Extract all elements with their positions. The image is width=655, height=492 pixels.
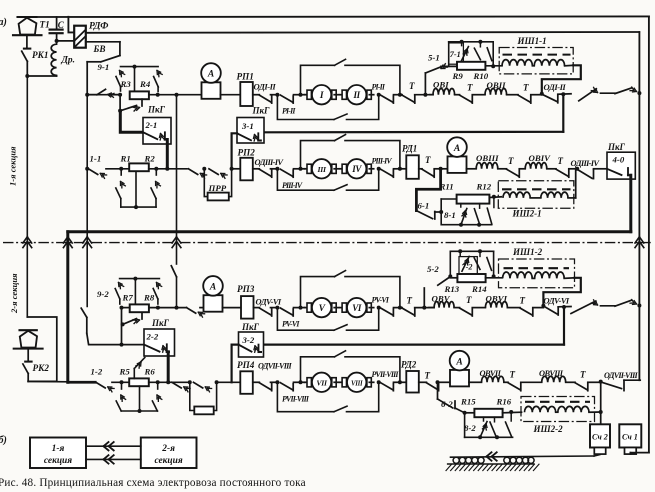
wire top bus to RDF [68,17,74,33]
switch T after OVII [518,95,531,103]
svg-text:R11: R11 [439,182,454,192]
switch ODVII-VIII [259,383,271,391]
node return drop row3 [558,305,571,309]
blade 8-2 c [506,412,512,437]
node R5 left [120,380,124,384]
svg-text:Сч 1: Сч 1 [622,433,638,442]
blade 7-2 c [487,258,492,271]
resistor R13 R14 [457,274,485,282]
switch PRR mid [209,169,227,179]
svg-text:РДФ: РДФ [89,21,108,32]
label OVIII [476,153,499,163]
label OVII [487,80,507,90]
node BV-main1 [85,93,89,97]
svg-text:ОВVІ: ОВVІ [486,294,508,304]
switch T after OVVI [520,308,533,316]
line to OD node row1 [531,94,542,96]
switch 1-2 [96,382,114,392]
label ODV-VI [256,297,282,307]
line2 to R1 [106,168,129,170]
svg-text:2-2: 2-2 [146,332,159,342]
svg-text:Т: Т [580,370,586,380]
node 2-2 wire [120,343,124,347]
lower bypass blade y307.6 [334,325,347,331]
R1R2 joiner [121,172,156,210]
label R10 [473,71,489,81]
label PkG 4-0 [607,142,626,152]
svg-text:РП2: РП2 [238,148,256,158]
switch ODIII-IV right [577,169,607,179]
svg-text:8-1: 8-1 [444,210,456,220]
label T3 row3 [520,296,526,306]
label 2-2 [146,332,159,342]
bold wire to 2-1 [120,111,143,132]
ISh2-1 return [575,169,577,198]
R1R2 hanging left [116,169,126,207]
svg-text:R1: R1 [120,154,131,164]
svg-text:R9: R9 [452,71,464,81]
label RP3 [237,284,255,294]
svg-text:ОДІІІ-ІV: ОДІІІ-ІV [571,158,601,168]
relay RP2 [240,158,253,181]
svg-text:1-2: 1-2 [91,367,103,377]
node tap1 top r3 [458,249,462,255]
top roof bus [18,15,649,18]
node tap2 top [478,40,482,47]
lower bypass left leg y168.8 [277,169,334,190]
svg-text:R12: R12 [476,182,492,192]
bold drop 4-0 [629,175,632,232]
label T rd1 [425,155,431,165]
return wire row3 down [563,307,565,345]
node upper bypass end y307.6 [394,306,402,310]
svg-text:Т: Т [520,296,526,306]
label section1 [8,146,18,186]
blade 7-1 a [461,47,468,62]
switch 5-2 [424,277,450,288]
node 6-2 start [436,380,451,384]
label RP2 [238,148,256,158]
label C [58,20,65,30]
label 4-0 [612,155,625,165]
switch bank1 row3 [571,300,615,314]
label T1 [40,20,50,30]
label T rd2 [425,371,431,381]
label RD2 [401,360,417,370]
switch bank2 row1 [615,87,637,94]
motor ІІІ [305,159,339,178]
svg-text:ОДV-VІ: ОДV-VІ [256,297,282,307]
switch T rd1 [419,169,434,177]
wire to 2-2 [87,333,144,344]
svg-text:ОДVІІ-VІІІ: ОДVІІ-VІІІ [258,362,292,371]
node line2 left [85,167,89,171]
svg-text:Т: Т [558,156,564,166]
node after motors y168.8 [377,167,381,171]
wire 3-1 input [232,133,237,169]
joiner 7-1 top [449,42,494,67]
bus177 sect2 [176,239,178,264]
svg-text:Т: Т [467,83,473,93]
line3 R7R8 [122,307,187,309]
line4 to RP4 [217,381,241,383]
shunt ISh1-2 coils [503,272,575,278]
lower bypass right y382.3 [347,382,379,411]
bus87 switch sect2 [81,308,87,333]
node R12 right [489,195,501,199]
label R9 [452,71,464,81]
return line y132 [264,131,563,134]
svg-text:А: А [455,357,462,367]
line node to bypass riser y168.8 [294,168,301,170]
svg-text:1-я секция: 1-я секция [8,146,18,186]
blade 7-1 c [487,48,492,61]
node upper bypass end y382.3 [394,380,402,384]
shunt ISh1-1 box [499,48,573,74]
field OVI coil [430,89,460,95]
node 9-1 mid [133,65,137,69]
node R2 right [154,167,158,171]
switch T after OVVII [508,383,521,391]
wire to motor ІІІ [301,168,305,170]
switch RK1 [22,51,28,76]
node motorgroup-in y168.8 [275,167,279,171]
ammeter A3 [203,276,223,312]
ammeter A1 [201,63,221,99]
resistor R5 R6 [129,378,149,386]
bus177 switch [171,264,176,308]
svg-text:Рис. 48. Принципиальная схема: Рис. 48. Принципиальная схема электровоз… [0,477,306,489]
switch R-right y94.7 [381,95,394,103]
svg-text:РV-VI: РV-VI [372,295,390,304]
contactor 3-1 [237,118,264,144]
label RK2 [33,363,50,373]
svg-text:РVІІ-VІІІ: РVІІ-VІІІ [282,394,310,403]
label ODVII-VIII right [604,371,638,380]
svg-text:А: А [209,283,216,293]
switch line1 entry [87,89,120,97]
ISh1-1 return wire [542,65,581,94]
svg-text:ІV: ІV [351,164,362,174]
svg-text:РК1: РК1 [32,50,48,60]
joiner 7-2 top [450,251,493,276]
lower bypass left leg y307.6 [277,308,334,331]
wheels on rail [453,457,534,463]
svg-text:РП1: РП1 [237,72,254,82]
label T2 row1 [467,83,473,93]
svg-text:2-я секция: 2-я секция [9,273,19,314]
upper bypass y382.3 [301,351,400,383]
line to OD node row3 [533,307,544,309]
svg-text:ИШ1-2: ИШ1-2 [512,247,543,257]
svg-text:R8: R8 [143,293,155,303]
switch T after OVIII [507,169,520,177]
node PRR2 right [215,380,219,384]
label РІ-ІІ upper [372,82,386,91]
node inner bus row1 [637,91,641,95]
switch T rd2 [419,382,439,390]
wire cap to RDF [57,40,75,42]
rail wire [451,455,601,458]
svg-text:5-1: 5-1 [428,53,440,63]
ammeter A2 [447,137,467,173]
svg-text:РІ-ІІ: РІ-ІІ [372,82,386,91]
svg-text:R3: R3 [120,79,132,89]
node 5-2 riser [422,306,426,310]
node 6-1 start [434,167,447,171]
svg-text:ИШ2-2: ИШ2-2 [533,424,564,434]
label OVVI [486,294,508,304]
resistor R15 R16 [474,409,502,417]
svg-text:VІІ: VІІ [316,379,328,388]
field OVIV coil [519,163,556,169]
R15 left stub [455,408,474,415]
svg-text:С: С [58,20,65,30]
lower bypass right y307.6 [347,308,379,331]
line3 to ammeter [200,307,204,309]
switch ODI-II right [542,94,558,103]
choke Dr [51,42,56,75]
wire RP1 to OD [253,94,259,96]
ISh1-2 return wire [543,278,580,306]
main line 1 to ammeter [149,94,202,96]
switch R-right y382.3 [381,383,394,391]
label RDF [89,21,108,32]
label ODIII-IV right [571,158,601,168]
field OVVII coil [469,376,508,382]
svg-text:ОДІ-ІІ: ОДІ-ІІ [544,82,567,92]
node R13 left [448,274,457,278]
relay RP1 [240,82,253,106]
filter RDF [74,26,86,48]
inner bus jog [624,379,640,381]
svg-text:Т: Т [510,370,516,380]
svg-text:R6: R6 [144,367,156,377]
label ISh2-1 [512,209,542,219]
lower bypass blade y168.8 [334,185,347,191]
switch 9-1 right [154,71,163,92]
line2 R2 to 2-1 node [149,168,187,170]
caption [0,477,306,489]
switch RK2 [23,364,28,381]
svg-text:Т: Т [523,83,529,93]
svg-text:Сч 2: Сч 2 [592,433,608,442]
svg-text:8-2: 8-2 [464,423,476,433]
label 3-1 [241,121,254,131]
label PRR [208,183,227,193]
box 7-1 [449,43,464,64]
arrow bus27 [23,237,32,248]
node upper bypass start y168.8 [299,167,303,171]
node after motors y94.7 [377,93,381,97]
field OVV coil [429,302,460,308]
switch bank2 row3 [615,300,637,307]
svg-text:R13: R13 [444,284,460,294]
label OVV [432,294,451,304]
wire RP4 out [253,381,259,383]
svg-text:R5: R5 [119,367,131,377]
line to node4 [271,381,278,383]
lower bypass blade y94.7 [334,114,347,120]
svg-text:А: А [453,144,460,154]
node tap1 top [460,40,464,46]
switch R-left y168.8 [280,169,293,177]
label R4 [139,79,151,89]
svg-text:3-1: 3-1 [241,121,254,131]
wire to motor V [301,307,305,309]
node PRR right [230,167,234,171]
blade 8-1 b [474,204,479,224]
line T to 5-1 node [415,94,433,96]
line node to bypass riser y307.6 [294,307,301,309]
label T2 row3 [466,295,472,305]
switch 9-2 right [153,283,161,305]
label a) [0,17,7,28]
label ODI-II [254,82,277,92]
label R15 [460,397,476,407]
label ODI-II right [544,82,567,92]
bold 6-1 path [416,169,440,211]
label Dr [61,56,75,66]
switch T row3 [400,308,415,316]
switch ODV-VI right [543,306,558,315]
node R1 left [119,167,123,171]
svg-text:ОДІ-ІІ: ОДІ-ІІ [254,82,277,92]
line to OD node row4 [588,381,601,383]
shunt ISh1-2 box [499,259,575,288]
upper bypass y307.6 [301,271,400,308]
switch ODI-II [259,95,271,103]
svg-text:ПРР: ПРР [208,183,227,193]
bus x177 down [176,95,178,239]
lower bypass right y94.7 [347,95,379,120]
label PkG 2-2 [151,318,170,328]
motor ІІ [340,85,374,104]
label 8-2 [464,423,476,433]
node bus177 top [175,93,179,97]
svg-text:R16: R16 [496,397,512,407]
wire Sch2 vertical [599,382,603,425]
intersection feeder down [66,232,69,383]
svg-text:R4: R4 [139,79,151,89]
label section2 [9,273,19,314]
joiner 8-1 [459,223,492,227]
label R16 [496,397,512,407]
capacitor C [50,17,63,41]
svg-text:R14: R14 [471,284,487,294]
svg-text:Др.: Др. [61,56,75,66]
label РІ-ІІ lower [282,107,296,116]
svg-text:ОДІІІ-ІV: ОДІІІ-ІV [255,157,285,167]
resistor R7 R8 [130,304,149,312]
riser 5-1 [424,73,426,95]
motor VІ [340,298,374,317]
resistor PRR2 loop [190,382,217,414]
svg-text:РVІІ-VІІІ: РVІІ-VІІІ [372,370,400,379]
relay RP4 [240,371,253,394]
label b) [0,435,7,446]
label ODV-VI right [544,295,570,305]
svg-text:2-я: 2-я [161,444,175,454]
ammeter A4 [450,351,470,387]
node ISh return row3 [541,304,545,308]
label PkG 3-2 [241,322,260,332]
node R8 right [156,306,160,310]
bus87 sect2 [86,239,88,307]
label РІІІ-ІV upper [372,157,393,166]
switch T after OVI [460,95,473,103]
svg-text:секция: секция [44,456,72,466]
lower bypass left leg y382.3 [277,382,334,411]
arrow on rail [487,452,497,460]
label R11 [439,182,454,192]
svg-text:А: А [207,70,214,80]
second roof bus [86,31,639,34]
node ISh return row1 [540,92,544,96]
label R6 [144,367,156,377]
node cap junction [55,39,59,43]
svg-text:ІІІ: ІІІ [316,165,326,174]
svg-text:ПкГ: ПкГ [241,322,260,332]
main line 1 left [87,94,120,96]
svg-text:ПкГ: ПкГ [252,106,271,116]
node upper bypass start y94.7 [299,93,303,97]
box 7-2 [459,257,477,277]
label 9-1 [98,62,110,72]
motor ІV [340,159,374,178]
motor VІІІ [340,373,374,392]
line4 to R5 [112,381,129,383]
blade 8-1 c [487,196,494,224]
svg-text:РД1: РД1 [402,144,417,154]
counter Sch2 [590,424,610,454]
label 1-1 [90,154,102,164]
motor VІІ [305,373,339,392]
label R14 [471,284,487,294]
svg-text:5-2: 5-2 [427,264,439,274]
R5R6 hanging left [116,382,125,411]
node motorgroup-in y94.7 [275,93,279,97]
svg-text:Т: Т [508,156,514,166]
node 5-1 riser [423,93,427,97]
svg-text:БВ: БВ [93,44,106,54]
label R7 [122,293,134,303]
resistor PRR loop [204,169,231,201]
shunt ISh2-1 coils [503,192,576,198]
svg-text:Т1: Т1 [40,20,50,30]
divider dash-dot [3,242,652,244]
switch PRR2 mid [194,382,212,392]
label 8-1 [444,210,456,220]
svg-text:ПкГ: ПкГ [151,318,170,328]
label 7-2 [462,263,473,272]
svg-text:9-2: 9-2 [97,289,109,299]
switch R-right y307.6 [381,308,394,316]
upper bypass y168.8 [301,135,400,169]
resistor R1 R2 [129,163,149,171]
svg-text:ОВVІІ: ОВVІІ [480,369,502,378]
label ISh1-1 [517,36,547,46]
label BV [93,44,106,54]
bus section1 left [26,76,28,239]
switch 6-1 [416,211,441,219]
svg-text:4-0: 4-0 [612,155,625,165]
switch after bus177 [187,308,205,318]
label T2 row4 [510,370,516,380]
svg-text:ІІ: ІІ [352,90,360,100]
outer bus [648,16,650,452]
node inner bus row3 [637,304,641,308]
